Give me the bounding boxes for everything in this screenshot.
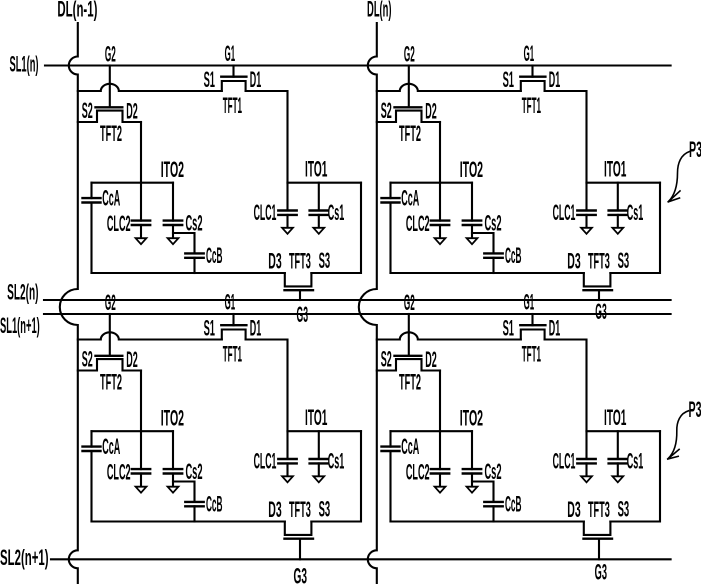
capacitor Cs2 (pixel1) <box>172 183 174 221</box>
wire: pixel3 data branch from DL to TFT1 source, hops over G2 stub <box>78 332 222 339</box>
transistor TFT2 (pixel3) <box>78 359 141 370</box>
transistor TFT3 (pixel4) <box>584 522 611 535</box>
ground (CLC2 pixel2) <box>435 238 446 244</box>
wire: pixel4 node ITO1 down to TFT3 source S3 <box>610 431 660 521</box>
wire: pixel3 node ITO1 down to TFT3 source S3 <box>311 431 361 521</box>
transistor TFT3 (pixel1) <box>285 273 312 286</box>
data line DL(n-1) with hops over select lines <box>60 23 78 584</box>
svg-text:CcB: CcB <box>505 243 522 268</box>
svg-text:D1: D1 <box>250 316 261 341</box>
ground (CLC2 pixel3) <box>136 487 147 493</box>
capacitor CLC1 (pixel3) <box>286 431 288 459</box>
svg-text:ITO1: ITO1 <box>604 405 626 430</box>
capacitor CLC2 (pixel2) <box>439 183 441 221</box>
svg-text:D2: D2 <box>126 347 138 372</box>
svg-text:D1: D1 <box>549 316 560 341</box>
ground (Cs2 pixel2) <box>467 238 478 244</box>
ground (CLC2 pixel4) <box>435 487 446 493</box>
ground (Cs1 pixel1) <box>313 228 324 234</box>
svg-text:D1: D1 <box>549 67 560 92</box>
svg-text:Cs1: Cs1 <box>627 449 644 474</box>
wire: pixel2 TFT2 drain to node ITO2 <box>439 122 441 183</box>
svg-text:CcA: CcA <box>102 186 120 211</box>
select line SL2(n+1) <box>51 558 671 560</box>
svg-text:S2: S2 <box>381 347 392 372</box>
capacitor Cs2 (pixel3) <box>172 431 174 469</box>
ground (Cs2 pixel1) <box>168 238 179 244</box>
capacitor CcA (pixel1) <box>90 183 92 198</box>
wire: pixel4 pixel bottom rail (TFT3 drain D3 to CcA/CcB) <box>391 520 584 522</box>
wire: pixel3 Cs2 bottom to CcB <box>173 482 195 502</box>
wire: pixel3 G2 gate stub <box>109 314 111 356</box>
svg-text:ITO1: ITO1 <box>305 405 327 430</box>
ground (CLC1 pixel4) <box>581 476 592 482</box>
svg-text:D2: D2 <box>425 99 437 124</box>
svg-text:S2: S2 <box>82 98 93 123</box>
svg-text:G2: G2 <box>404 42 415 67</box>
capacitor CcB (pixel4) <box>484 501 502 503</box>
ground (CLC1 pixel2) <box>581 228 592 234</box>
wire: pixel4 data branch from DL to TFT1 source, hops over G2 stub <box>377 332 521 339</box>
wire: pixel3 TFT2 drain to node ITO2 <box>140 371 142 432</box>
node ITO2 (pixel3) <box>92 430 174 432</box>
capacitor CLC2 (pixel4) <box>439 431 441 469</box>
svg-text:P3: P3 <box>689 397 701 422</box>
transistor TFT3 (pixel2) <box>584 273 611 286</box>
svg-text:TFT3: TFT3 <box>289 249 311 274</box>
ground (CLC1 pixel1) <box>282 228 293 234</box>
transistor TFT1 (pixel1) <box>222 81 246 91</box>
svg-text:G2: G2 <box>105 290 116 315</box>
capacitor CLC1 (pixel2) <box>585 183 587 211</box>
svg-text:S2: S2 <box>381 98 392 123</box>
capacitor Cs2 (pixel2) <box>471 183 473 221</box>
capacitor CcA (pixel2) <box>389 183 391 198</box>
svg-text:S1: S1 <box>204 67 215 92</box>
svg-text:Cs1: Cs1 <box>328 449 345 474</box>
svg-text:G3: G3 <box>297 302 309 327</box>
svg-text:D3: D3 <box>567 249 580 274</box>
transistor TFT3 (pixel3) <box>285 522 312 535</box>
svg-text:S3: S3 <box>319 497 331 522</box>
capacitor CLC2 (pixel3) <box>140 431 142 469</box>
svg-text:TFT2: TFT2 <box>100 370 122 395</box>
wire: pixel4 TFT1 drain to node ITO1 <box>545 340 587 432</box>
svg-text:G3: G3 <box>595 560 607 584</box>
svg-text:S3: S3 <box>618 248 630 273</box>
transistor TFT2 (pixel4) <box>377 359 440 370</box>
svg-text:TFT1: TFT1 <box>522 93 541 118</box>
svg-text:ITO1: ITO1 <box>305 157 327 182</box>
wire: pixel4 TFT2 drain to node ITO2 <box>439 371 441 432</box>
capacitor Cs1 (pixel1) <box>318 183 320 211</box>
svg-text:CcB: CcB <box>206 492 223 517</box>
node ITO2 (pixel4) <box>391 430 473 432</box>
svg-text:CcB: CcB <box>505 492 522 517</box>
capacitor Cs1 (pixel2) <box>617 183 619 211</box>
capacitor CLC2 (pixel1) <box>140 183 142 221</box>
svg-text:Cs2: Cs2 <box>484 211 501 236</box>
wire: pixel3 TFT1 drain to node ITO1 <box>246 340 288 432</box>
wire: pixel2 G2 gate stub <box>408 66 410 108</box>
wire: pixel1 TFT2 drain to node ITO2 <box>140 122 142 183</box>
svg-text:D3: D3 <box>567 497 580 522</box>
svg-text:TFT1: TFT1 <box>522 342 541 367</box>
wire: pixel1 G2 gate stub <box>109 66 111 108</box>
svg-text:TFT3: TFT3 <box>588 497 610 522</box>
svg-text:P3: P3 <box>689 137 701 162</box>
svg-text:D1: D1 <box>250 67 261 92</box>
svg-text:TFT3: TFT3 <box>588 249 610 274</box>
svg-text:D2: D2 <box>126 99 138 124</box>
node ITO1 (pixel1) <box>288 182 362 184</box>
capacitor CLC1 (pixel1) <box>286 183 288 211</box>
svg-text:CLC1: CLC1 <box>553 449 576 474</box>
svg-text:CLC1: CLC1 <box>553 200 576 225</box>
capacitor Cs1 (pixel4) <box>617 431 619 459</box>
svg-text:Cs1: Cs1 <box>328 200 345 225</box>
svg-text:TFT1: TFT1 <box>223 342 242 367</box>
svg-text:S3: S3 <box>319 248 331 273</box>
svg-text:CLC1: CLC1 <box>254 200 277 225</box>
svg-text:G1: G1 <box>524 290 535 315</box>
svg-text:ITO2: ITO2 <box>460 406 483 431</box>
capacitor CcB (pixel1) <box>185 252 203 254</box>
capacitor CLC1 (pixel4) <box>585 431 587 459</box>
data line DL(n) with hops over select lines <box>359 23 377 584</box>
wire: pixel1 data branch from DL to TFT1 source, hops over G2 stub <box>78 84 222 91</box>
svg-text:SL1(n): SL1(n) <box>10 52 39 77</box>
svg-text:SL2(n): SL2(n) <box>7 280 38 305</box>
svg-text:ITO1: ITO1 <box>604 157 626 182</box>
svg-text:S3: S3 <box>618 497 630 522</box>
svg-text:S1: S1 <box>503 316 514 341</box>
svg-text:CLC1: CLC1 <box>254 449 277 474</box>
wire: pixel4 G2 gate stub <box>408 314 410 356</box>
svg-text:TFT3: TFT3 <box>289 497 311 522</box>
svg-text:CcA: CcA <box>102 434 120 459</box>
svg-text:ITO2: ITO2 <box>161 157 184 182</box>
svg-text:G3: G3 <box>595 299 607 324</box>
ground (Cs1 pixel2) <box>612 228 623 234</box>
svg-text:G2: G2 <box>105 42 116 67</box>
svg-text:CcA: CcA <box>401 186 419 211</box>
svg-text:CLC2: CLC2 <box>107 460 131 485</box>
node ITO1 (pixel2) <box>587 182 661 184</box>
capacitor CcA (pixel3) <box>90 431 92 446</box>
wire: pixel2 TFT1 drain to node ITO1 <box>545 91 587 183</box>
transistor TFT1 (pixel2) <box>521 81 545 91</box>
wire: pixel1 node ITO1 down to TFT3 source S3 <box>311 183 361 273</box>
ground (Cs1 pixel4) <box>612 476 623 482</box>
svg-text:D2: D2 <box>425 347 437 372</box>
svg-text:TFT2: TFT2 <box>399 121 421 146</box>
svg-text:ITO2: ITO2 <box>460 157 483 182</box>
capacitor CcB (pixel3) <box>185 501 203 503</box>
svg-text:DL(n-1): DL(n-1) <box>57 0 97 22</box>
svg-text:TFT2: TFT2 <box>100 121 122 146</box>
wire: pixel1 pixel bottom rail (TFT3 drain D3 to CcA/CcB) <box>92 272 285 274</box>
svg-text:TFT2: TFT2 <box>399 370 421 395</box>
svg-text:DL(n): DL(n) <box>367 0 392 22</box>
node ITO1 (pixel4) <box>587 430 661 432</box>
svg-text:SL2(n+1): SL2(n+1) <box>0 545 48 570</box>
node ITO2 (pixel1) <box>92 182 174 184</box>
select line SL1(n) <box>45 64 671 66</box>
capacitor CcA (pixel4) <box>389 431 391 446</box>
svg-text:G2: G2 <box>404 290 415 315</box>
svg-text:TFT1: TFT1 <box>223 93 242 118</box>
svg-text:CcB: CcB <box>206 243 223 268</box>
ground (Cs2 pixel3) <box>168 487 179 493</box>
capacitor CcB (pixel2) <box>484 252 502 254</box>
svg-text:SL1(n+1): SL1(n+1) <box>0 313 40 338</box>
ground (CLC1 pixel3) <box>282 476 293 482</box>
wire: pixel4 Cs2 bottom to CcB <box>472 482 494 502</box>
svg-text:Cs2: Cs2 <box>185 459 202 484</box>
svg-text:D3: D3 <box>268 497 281 522</box>
svg-text:CLC2: CLC2 <box>107 211 131 236</box>
wire: pixel2 Cs2 bottom to CcB <box>472 233 494 253</box>
wire: pixel2 data branch from DL to TFT1 source, hops over G2 stub <box>377 84 521 91</box>
svg-text:S1: S1 <box>204 316 215 341</box>
ground (CLC2 pixel1) <box>136 238 147 244</box>
transistor TFT1 (pixel4) <box>521 330 545 340</box>
capacitor Cs1 (pixel3) <box>318 431 320 459</box>
ground (Cs2 pixel4) <box>467 487 478 493</box>
node ITO1 (pixel3) <box>288 430 362 432</box>
transistor TFT1 (pixel3) <box>222 330 246 340</box>
svg-text:ITO2: ITO2 <box>161 406 184 431</box>
wire: pixel2 pixel bottom rail (TFT3 drain D3 to CcA/CcB) <box>391 272 584 274</box>
svg-text:CLC2: CLC2 <box>406 211 430 236</box>
svg-text:S2: S2 <box>82 347 93 372</box>
svg-text:D3: D3 <box>268 249 281 274</box>
transistor TFT2 (pixel1) <box>78 111 141 122</box>
select line SL2(n) <box>44 299 671 301</box>
svg-text:S1: S1 <box>503 67 514 92</box>
svg-text:Cs2: Cs2 <box>185 211 202 236</box>
svg-text:Cs2: Cs2 <box>484 459 501 484</box>
svg-text:CcA: CcA <box>401 434 419 459</box>
wire: pixel1 Cs2 bottom to CcB <box>173 233 195 253</box>
select line SL1(n+1) <box>44 313 671 315</box>
node ITO2 (pixel2) <box>391 182 473 184</box>
svg-text:Cs1: Cs1 <box>627 200 644 225</box>
svg-text:G1: G1 <box>524 41 535 66</box>
svg-text:CLC2: CLC2 <box>406 460 430 485</box>
transistor TFT2 (pixel2) <box>377 111 440 122</box>
capacitor Cs2 (pixel4) <box>471 431 473 469</box>
wire: pixel2 node ITO1 down to TFT3 source S3 <box>610 183 660 273</box>
wire: pixel3 pixel bottom rail (TFT3 drain D3 to CcA/CcB) <box>92 520 285 522</box>
svg-text:G3: G3 <box>294 564 308 584</box>
svg-text:G1: G1 <box>225 41 236 66</box>
ground (Cs1 pixel3) <box>313 476 324 482</box>
wire: pixel1 TFT1 drain to node ITO1 <box>246 91 288 183</box>
svg-text:G1: G1 <box>225 290 236 315</box>
